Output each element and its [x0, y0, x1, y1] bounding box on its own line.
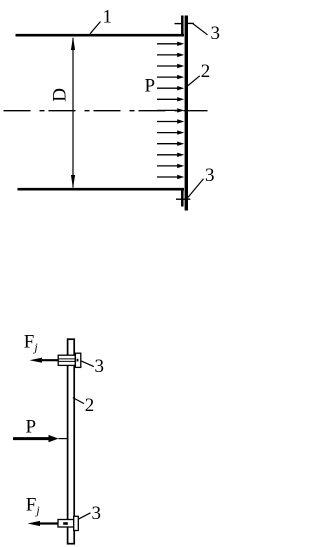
svg-text:2: 2: [85, 395, 95, 416]
svg-text:3: 3: [211, 23, 221, 44]
svg-text:P: P: [145, 75, 156, 96]
cover plate (part 2, bottom view): [68, 339, 75, 544]
force arrow Fj bottom: [28, 521, 59, 526]
top bolt tick left: [175, 23, 182, 25]
pressure arrow row 7 (on axis): [157, 108, 184, 112]
top bolt body thread lines: [58, 358, 75, 360]
svg-text:1: 1: [103, 6, 113, 27]
dimension arrowhead down: [71, 175, 75, 188]
dimension line D: [72, 38, 74, 188]
pipe wall top (part 1): [16, 34, 185, 37]
force arrow P: [13, 435, 67, 442]
svg-text:D: D: [50, 88, 71, 102]
force arrow Fj top: [30, 358, 59, 363]
pressure arrow row 8: [157, 119, 184, 123]
leader line to label 2 (bottom view): [73, 398, 84, 404]
svg-text:3: 3: [205, 165, 215, 186]
top bolt nut: [75, 353, 80, 367]
dimension arrowhead up: [71, 37, 75, 50]
axis centerline (dash-dot): [4, 110, 208, 112]
pressure arrow row 2: [157, 53, 184, 57]
bottom bolt nut: [74, 516, 79, 530]
svg-text:2: 2: [201, 61, 211, 82]
cover plate bar (part 2): [185, 16, 188, 211]
svg-text:3: 3: [92, 503, 102, 524]
pressure arrow row 11: [157, 153, 184, 157]
leader line to top label 3: [193, 23, 208, 34]
pressure arrow row 3: [157, 64, 184, 68]
svg-text:3: 3: [95, 356, 105, 377]
pressure arrow row 9: [157, 130, 184, 134]
flange edge bar top: [181, 16, 184, 37]
top bolt body (part 3): [58, 355, 75, 365]
pressure arrow row 6: [157, 97, 184, 101]
flange edge bar bottom: [181, 188, 184, 207]
leader line to label 3 (bottom bolt): [78, 513, 90, 519]
pressure arrow row 13: [157, 175, 184, 179]
svg-text:P: P: [26, 417, 37, 438]
bottom bolt body (part 3): [58, 520, 74, 528]
pressure arrow row 12: [157, 164, 184, 168]
top bolt nut inner tick: [77, 359, 79, 362]
top bolt tick right: [188, 22, 194, 24]
pipe wall bottom (part 1): [18, 188, 185, 191]
bottom bolt tick: [176, 198, 190, 200]
pressure arrow row 4: [157, 75, 184, 79]
leader line to label 1: [90, 22, 101, 34]
leader line to label 3 (top bolt): [81, 361, 94, 367]
pressure arrow row 5: [157, 86, 184, 90]
leader line to bottom label 3: [187, 179, 204, 199]
pressure arrows on plate: [157, 42, 184, 180]
leader line to label 2: [187, 76, 200, 87]
bottom bolt body inner mark: [63, 522, 68, 525]
pressure arrow row 1: [157, 42, 184, 46]
pressure arrow row 10: [157, 142, 184, 146]
